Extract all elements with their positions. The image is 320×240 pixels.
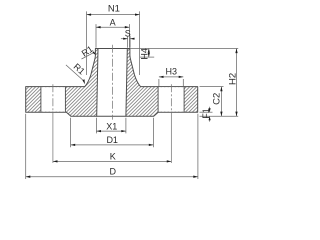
dimension H4 <box>139 48 154 60</box>
dimension D <box>26 114 198 179</box>
main centerline <box>112 45 114 120</box>
bolt hole left (white cut-out) <box>41 87 66 113</box>
flange body left half (hatched section) <box>26 49 98 117</box>
bolt hole right (white cut-out) <box>158 87 184 113</box>
flange body right half (hatched section) <box>126 49 198 117</box>
svg-text:H3: H3 <box>166 67 178 77</box>
svg-text:K: K <box>110 151 116 161</box>
neck top extension line to H2 <box>130 48 238 50</box>
dimension S <box>121 29 135 48</box>
bolt centerline left <box>52 84 54 118</box>
bottom face far edge across bore <box>97 115 126 117</box>
dimension N1 <box>87 3 140 75</box>
svg-text:N1: N1 <box>108 3 120 14</box>
svg-text:H2: H2 <box>228 73 239 85</box>
dimension D1 <box>71 118 154 147</box>
leader label R1 lower <box>66 61 87 84</box>
bottom face extension line to H2 <box>200 115 239 117</box>
svg-text:F1: F1 <box>201 108 211 119</box>
dimension F1 <box>200 107 213 122</box>
dimension H3 <box>159 67 183 87</box>
svg-text:C2: C2 <box>211 93 222 105</box>
svg-text:D: D <box>109 167 116 177</box>
svg-text:D1: D1 <box>106 135 118 145</box>
svg-text:X1: X1 <box>106 122 117 132</box>
dimension K <box>53 151 171 162</box>
bolt centerline right <box>170 84 172 118</box>
svg-text:A: A <box>110 18 116 28</box>
neck top edge <box>95 48 129 50</box>
dimension A <box>96 18 129 48</box>
dimension C2 <box>200 87 224 117</box>
svg-text:S: S <box>125 29 131 39</box>
svg-text:H4: H4 <box>139 48 149 60</box>
dimension H2 <box>228 49 239 117</box>
dimension X1 <box>96 118 126 134</box>
leader label R1 upper <box>80 44 96 59</box>
